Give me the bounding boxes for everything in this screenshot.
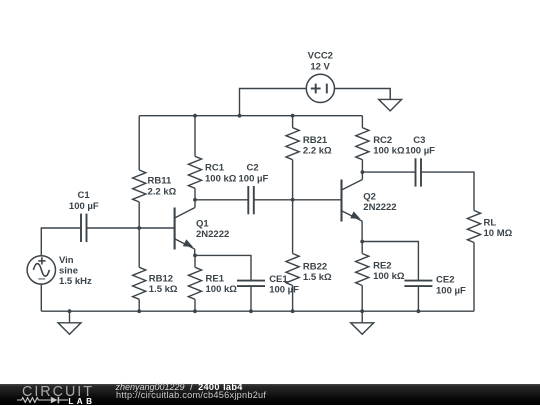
wire C2 to Q2 base <box>254 199 342 201</box>
svg-text:12 V: 12 V <box>310 61 330 72</box>
footer bar <box>0 384 540 406</box>
svg-text:100 µF: 100 µF <box>69 201 99 212</box>
ground GND-left <box>58 311 81 334</box>
node base wire / RB1x <box>137 226 141 230</box>
node rail / RB12 <box>137 309 141 313</box>
node rail / RE1 <box>193 309 197 313</box>
wire Vin bottom <box>40 284 42 311</box>
svg-text:100 kΩ: 100 kΩ <box>373 146 405 157</box>
node rail / RE2 ground <box>360 309 364 313</box>
svg-text:100 µF: 100 µF <box>239 173 269 184</box>
resistor RB11 <box>133 116 146 228</box>
svg-text:Q2: Q2 <box>363 191 376 202</box>
voltage source VCC2 <box>306 74 334 102</box>
svg-text:C1: C1 <box>78 190 91 201</box>
label RB22 <box>303 262 332 284</box>
capacitor CE1 <box>237 281 265 312</box>
svg-text:100 kΩ: 100 kΩ <box>206 284 238 295</box>
wire C3 to RL <box>421 172 474 210</box>
label RE2 <box>373 260 405 282</box>
capacitor C1 <box>81 214 87 242</box>
svg-text:1.5 kΩ: 1.5 kΩ <box>303 272 332 283</box>
source Vin <box>27 256 55 284</box>
svg-text:100 kΩ: 100 kΩ <box>373 271 405 282</box>
resistor RE2 <box>356 242 369 312</box>
svg-text:VCC2: VCC2 <box>308 51 333 62</box>
label RB21 <box>303 135 332 157</box>
capacitor C2 <box>248 186 254 214</box>
transistor Q2 <box>342 172 363 241</box>
wire RC1 to C2 <box>195 199 248 201</box>
label Q2 <box>363 191 396 213</box>
resistor RB12 <box>133 228 146 311</box>
svg-text:C2: C2 <box>247 163 259 174</box>
label VCC2 value <box>308 51 333 73</box>
svg-text:RE1: RE1 <box>206 273 225 284</box>
label C3 <box>405 135 435 157</box>
label RB11 <box>148 176 177 198</box>
ground GND-top <box>379 89 402 111</box>
label CE1 <box>269 274 299 296</box>
label Q1 <box>196 218 229 240</box>
svg-text:2N2222: 2N2222 <box>196 229 229 240</box>
wire C1 to Q1 base <box>87 227 175 229</box>
resistor RL <box>467 211 480 312</box>
footer text line 2 <box>116 391 266 400</box>
svg-text:Q1: Q1 <box>196 218 209 229</box>
node rail / RB22 <box>291 309 295 313</box>
svg-text:100 kΩ: 100 kΩ <box>205 173 237 184</box>
svg-text:2N2222: 2N2222 <box>363 202 396 213</box>
node top rail / RC1 <box>193 114 197 118</box>
label RE1 <box>206 273 238 295</box>
label Vin <box>59 255 92 287</box>
capacitor C3 <box>416 158 422 186</box>
node rail / ground left <box>68 309 72 313</box>
svg-text:RB12: RB12 <box>149 273 173 284</box>
node Q1 collector <box>193 198 197 202</box>
label C2 <box>239 163 269 185</box>
svg-text:sine: sine <box>59 266 78 277</box>
node Q2 emitter <box>360 240 364 244</box>
wire Q1 emitter to CE1 <box>195 255 251 280</box>
node rail / CE1 <box>249 309 253 313</box>
svg-text:RB11: RB11 <box>148 176 172 187</box>
logo schematic squiggle (resistor + diode) <box>17 395 71 406</box>
CircuitLab logo text <box>22 384 94 400</box>
node Q2 collector <box>361 170 365 174</box>
node rail / CE2 <box>417 309 421 313</box>
svg-text:RL: RL <box>484 217 497 228</box>
node mid wire / RB2x <box>291 198 295 202</box>
label RL <box>484 217 513 239</box>
capacitor CE2 <box>404 281 432 312</box>
svg-text:C3: C3 <box>413 135 425 146</box>
wire top rail <box>139 115 362 117</box>
wire Vin top to C1 <box>41 228 81 256</box>
node Q1 emitter <box>193 254 197 258</box>
label RB12 <box>149 273 178 295</box>
resistor RC2 <box>356 116 369 172</box>
svg-text:10 MΩ: 10 MΩ <box>484 228 513 239</box>
svg-text:RC1: RC1 <box>205 163 225 174</box>
label RC2 <box>373 135 405 157</box>
resistor RE1 <box>188 255 201 311</box>
svg-text:100 µF: 100 µF <box>269 285 299 296</box>
svg-text:RE2: RE2 <box>373 260 391 271</box>
svg-text:RB22: RB22 <box>303 262 327 273</box>
wire Q2 emitter to CE2 <box>362 242 418 281</box>
ground GND-mid <box>351 311 374 334</box>
wire VCC to ground <box>335 89 391 100</box>
svg-text:RB21: RB21 <box>303 135 328 146</box>
svg-text:CE2: CE2 <box>436 275 454 286</box>
footer text line 1 <box>116 383 243 392</box>
svg-text:Vin: Vin <box>59 255 74 266</box>
resistor RC1 <box>188 116 201 200</box>
svg-text:1.5 kΩ: 1.5 kΩ <box>149 284 178 295</box>
resistor RB21 <box>286 116 299 200</box>
svg-text:RC2: RC2 <box>373 135 392 146</box>
label C1 <box>69 190 99 212</box>
wire VCC drop <box>240 89 307 116</box>
node top rail / RB21 <box>291 114 295 118</box>
svg-text:2.2 kΩ: 2.2 kΩ <box>148 186 177 197</box>
node top rail / VCC <box>238 114 242 118</box>
svg-text:1.5 kHz: 1.5 kHz <box>59 276 92 287</box>
svg-text:100 µF: 100 µF <box>436 285 466 296</box>
wire RC2 to C3 <box>362 171 415 173</box>
label RC1 <box>205 163 237 185</box>
wire bottom rail <box>41 310 474 312</box>
svg-text:100 µF: 100 µF <box>405 146 435 157</box>
transistor Q1 <box>175 200 195 256</box>
resistor RB22 <box>286 200 299 311</box>
label CE2 <box>436 275 466 297</box>
svg-text:2.2 kΩ: 2.2 kΩ <box>303 146 332 157</box>
